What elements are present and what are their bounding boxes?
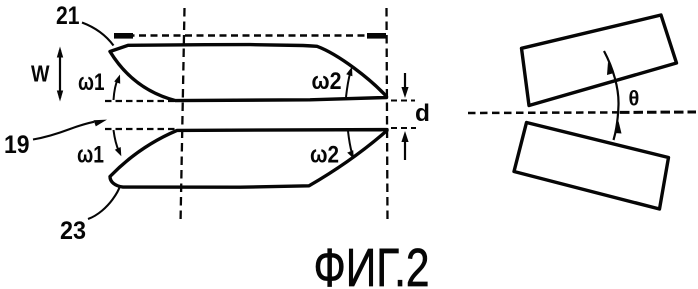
leader from 19 with arrow — [33, 122, 94, 140]
head block lower (tilted rectangle) — [514, 123, 669, 210]
svg-text:21: 21 — [56, 2, 80, 30]
svg-text:d: d — [415, 100, 430, 127]
svg-text:ω1: ω1 — [78, 69, 105, 96]
dimension d (gap) upper arrow — [404, 73, 406, 93]
svg-text:ω1: ω1 — [77, 142, 104, 169]
pole piece 23 (lower blade outline) — [110, 130, 387, 188]
svg-text:19: 19 — [4, 131, 30, 159]
svg-text:23: 23 — [60, 217, 86, 245]
dimension W (track width, double arrow) — [59, 50, 61, 98]
svg-text:W: W — [31, 61, 50, 87]
svg-text:ω2: ω2 — [312, 68, 342, 95]
dashed extension of blade 21 bottom edge — [105, 100, 174, 102]
angle w2 upper (arc with arrow) — [346, 72, 351, 98]
dashed extension of blade 23 top edge — [105, 128, 175, 130]
extension dash at y=128 — [391, 127, 416, 129]
medium centerline (right diagram, dashed) — [468, 111, 620, 114]
svg-text:θ: θ — [629, 87, 640, 111]
angle theta arc with arrows — [604, 51, 619, 140]
centerline right vertical (dash) — [387, 8, 388, 224]
leader from 21 to blade tip — [82, 23, 114, 46]
angle w2 lower (arc with arrow) — [348, 131, 352, 154]
svg-text:ω2: ω2 — [310, 142, 339, 169]
angle w1 lower (arc with arrow) — [114, 130, 120, 152]
svg-text:ФИГ.2: ФИГ.2 — [314, 238, 430, 289]
pole piece 21 (upper blade outline) — [110, 45, 387, 101]
dimension d lower arrow — [404, 137, 406, 160]
extension dash at y=100 — [391, 100, 415, 102]
angle w1 upper (arc with arrow) — [114, 79, 119, 101]
head block upper (tilted rectangle) — [522, 15, 677, 106]
leader from 23 to lower blade — [88, 186, 120, 219]
dimension line L (overall length, top dashed with end bars) — [114, 33, 386, 39]
centerline left vertical (dash) — [181, 8, 185, 224]
